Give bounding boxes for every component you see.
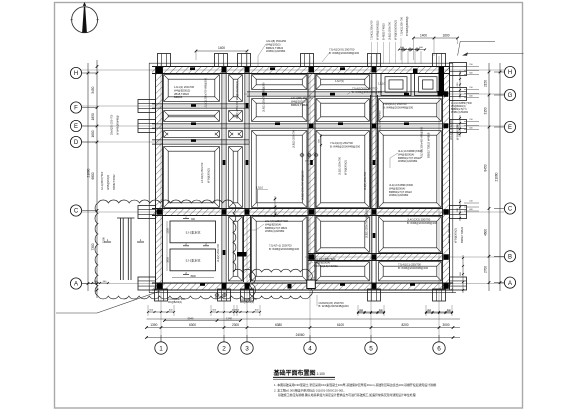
svg-text:B: W4B@200/W4B@200: B: W4B@200/W4B@200: [383, 105, 414, 109]
svg-text:JL8(1) 250x700 W8@200: JL8(1) 250x700 W8@200: [365, 208, 369, 238]
svg-text:2: 2: [222, 345, 226, 352]
columns (filled): [156, 67, 449, 289]
svg-text:600: 600: [149, 310, 153, 312]
rotated pair left wall: [111, 114, 120, 135]
rotated text g3 top: [235, 81, 239, 119]
svg-text:6800: 6800: [91, 172, 95, 179]
svg-text:4JL1(3B) 350x450: 4JL1(3B) 350x450: [291, 96, 313, 100]
svg-text:W4B1(4)JW4B2: W4B1(4)JW4B2: [451, 111, 469, 114]
svg-text:3150: 3150: [484, 107, 488, 114]
svg-text:W4@B200(4): W4@B200(4): [314, 260, 330, 264]
svg-text:7JL4(1CKG) 250/700: 7JL4(1CKG) 250/700: [329, 48, 355, 52]
beam stiffener marks: [190, 67, 415, 285]
top annotation leaders: [370, 20, 398, 64]
svg-text:B: W4B@200/W4B@200: B: W4B@200/W4B@200: [407, 221, 438, 225]
strip footing cell 18: [252, 217, 307, 281]
dimension chain bottom: [145, 319, 460, 339]
svg-text:5J-1集水坑: 5J-1集水坑: [186, 230, 201, 235]
svg-text:600J600: 600J600: [215, 298, 225, 300]
notes: [274, 382, 437, 397]
svg-text:600: 600: [255, 310, 259, 312]
svg-text:600: 600: [460, 271, 462, 275]
svg-text:基础平面布置图: 基础平面布置图: [273, 369, 316, 377]
top right leader lines: [458, 41, 524, 55]
svg-text:4600: 4600: [484, 229, 488, 236]
svg-text:JL6(2) 250x700: JL6(2) 250x700: [388, 21, 392, 40]
svg-text:C: C: [74, 209, 79, 215]
svg-text:W W4B@/W4B@: W W4B@/W4B@: [117, 115, 120, 135]
svg-text:7300: 7300: [91, 243, 95, 250]
svg-text:B3B82(2.5)7:3W22: B3B82(2.5)7:3W22: [398, 156, 421, 160]
svg-text:4JL1(3B9F)*600: 4JL1(3B9F)*600: [101, 171, 104, 190]
svg-text:L4.10(2B9F*600: L4.10(2B9F*600: [168, 299, 185, 301]
foundation beam row E: [152, 124, 443, 128]
svg-text:W4@B200(2): W4@B200(2): [174, 88, 190, 92]
svg-text:300: 300: [103, 281, 107, 283]
svg-text:21060: 21060: [87, 168, 91, 177]
svg-text:W W8@200/2(2): W W8@200/2(2): [376, 21, 380, 40]
foundation beam row D: [152, 140, 249, 144]
svg-text:B3B82 T3B22: B3B82 T3B22: [113, 174, 116, 190]
svg-text:6: 6: [437, 345, 441, 352]
svg-text:1JL7(3): 1JL7(3): [335, 79, 344, 83]
svg-text:W4B1(4)JW4B2: W4B1(4)JW4B2: [266, 49, 286, 53]
leader line lower left: [56, 291, 160, 313]
rotated pair x339: [338, 156, 348, 175]
interior wall column 3 lower: [244, 216, 251, 283]
svg-text:7JL4(1CKG) 250/700: 7JL4(1CKG) 250/700: [352, 87, 378, 91]
column stubs below bottom wall: [155, 289, 446, 301]
svg-text:JL8(2) 250x700: JL8(2) 250x700: [292, 129, 296, 148]
mini dim g4: [319, 134, 323, 147]
svg-text:6300: 6300: [189, 323, 196, 327]
strip footing cell 17: [229, 217, 243, 281]
svg-text:B W4B@/W4B@: B W4B@/W4B@: [405, 16, 409, 36]
text block mid left2: [269, 244, 300, 251]
grid bubbles left: [70, 67, 97, 289]
foundation beam column 5: [372, 74, 376, 284]
exterior wall top (grid H): [152, 67, 450, 74]
svg-text:1: 1: [159, 345, 163, 352]
strip footing cell 5: [164, 111, 220, 122]
svg-text:1240: 1240: [226, 316, 232, 320]
svg-text:JL6(1) 250x700: JL6(1) 250x700: [363, 171, 367, 190]
strip footing cell 22: [379, 262, 442, 281]
rotated dims sump left: [167, 221, 170, 271]
svg-text:B3B82(2.5)7:3W22: B3B82(2.5)7:3W22: [389, 190, 412, 194]
svg-text:G: G: [508, 93, 513, 99]
strip footing cell 16: [229, 147, 243, 208]
svg-text:21060: 21060: [495, 172, 499, 181]
rotated pair right wall upper: [449, 120, 460, 140]
svg-text:1600: 1600: [91, 130, 95, 137]
svg-text:JL4(1CX2) 250/700: JL4(1CX2) 250/700: [407, 218, 431, 222]
svg-text:H: H: [74, 71, 78, 77]
revision cloud: [95, 200, 255, 299]
rotated text g2 top: [204, 77, 208, 109]
rotated text x262: [262, 82, 266, 112]
svg-text:150: 150: [469, 64, 473, 66]
svg-text:200 200: 200 200: [305, 161, 314, 163]
leader low right: [306, 262, 313, 266]
leader top mid: [322, 52, 330, 62]
svg-text:6100: 6100: [337, 323, 344, 327]
svg-text:B3B22 T3B22 W4B18: B3B22 T3B22 W4B18: [427, 132, 431, 158]
text block top corner: [400, 16, 410, 60]
dimension chain left: [87, 60, 99, 298]
svg-text:1JL10: 1JL10: [378, 82, 386, 86]
svg-text:W4@B200(4): W4@B200(4): [168, 302, 182, 304]
svg-text:7JL4(1(3)) 250/700: 7JL4(1(3)) 250/700: [330, 141, 353, 145]
svg-text:B3B22 T3B22: B3B22 T3B22: [460, 226, 464, 243]
svg-text:3: 3: [245, 345, 249, 352]
svg-text:W4@200(2): W4@200(2): [266, 42, 281, 46]
svg-text:E: E: [74, 124, 78, 130]
text block top mid: [329, 48, 360, 55]
pilaster stubs right of wall: [450, 63, 467, 291]
svg-text:W 8@200(2): W 8@200(2): [207, 168, 211, 183]
sump top dim: [191, 218, 196, 221]
strip footing cell 9: [379, 99, 442, 122]
svg-text:基础施工前应先验槽,确认地基承载力满足设计要求后方可进行基础: 基础施工前应先验槽,确认地基承载力满足设计要求后方可进行基础施工,如遇异常情况及…: [278, 392, 416, 397]
grid bubbles right: [494, 66, 516, 288]
grid center lines vertical: [161, 56, 439, 342]
svg-text:W4B1(4)JW4B2: W4B1(4)JW4B2: [389, 193, 409, 197]
svg-text:1: 1: [140, 238, 142, 242]
strip footing cell 1: [164, 75, 220, 102]
svg-text:JL2(2) 250x700: JL2(2) 250x700: [216, 243, 220, 262]
svg-text:CMJW4(3X) 250/700: CMJW4(3X) 250/700: [319, 301, 345, 305]
svg-text:600: 600: [469, 209, 473, 211]
svg-text:1JL2(1) 250x700 W8@200: 1JL2(1) 250x700 W8@200: [204, 77, 208, 109]
rotated text g5 low: [365, 208, 369, 238]
text block right wall G-E: [451, 102, 472, 114]
revision cloud lower: [250, 269, 313, 299]
foundation beam row G: [247, 92, 443, 96]
rotated pair left wall lower: [101, 171, 116, 190]
svg-text:7JL4(1) 250x700: 7JL4(1) 250x700: [370, 20, 374, 40]
pilaster stubs left of wall: [138, 100, 156, 291]
rotated col g2 lower: [216, 243, 220, 262]
svg-text:2B18,T4B22: 2B18,T4B22: [174, 92, 189, 96]
strip footing cell 7: [252, 99, 307, 122]
svg-text:E: E: [508, 125, 512, 131]
pile marks top: [401, 47, 419, 51]
foundation beam column 3 upper: [245, 67, 249, 216]
interior wall row C: [152, 209, 443, 216]
svg-text:H: H: [508, 70, 512, 76]
svg-text:600: 600: [419, 47, 423, 49]
svg-text:6380: 6380: [275, 323, 282, 327]
small label L4.10: [256, 186, 268, 207]
svg-text:1400: 1400: [420, 33, 427, 37]
foundation beam column 2: [222, 67, 226, 284]
open column at grid 4 row A: [307, 280, 316, 289]
svg-text:W4B1(4)JW4B2: W4B1(4)JW4B2: [265, 229, 285, 233]
svg-text:600: 600: [469, 72, 473, 74]
svg-text:B: W4B@200/W4B@200: B: W4B@200/W4B@200: [329, 51, 360, 55]
strip footing cell 11: [229, 131, 243, 138]
text block mid right2: [407, 218, 438, 225]
svg-text:2JL4(7)C2B5F*600: 2JL4(7)C2B5F*600: [265, 219, 289, 223]
svg-text:1400: 1400: [218, 46, 225, 50]
svg-text:W 8@100/200(2): W 8@100/200(2): [394, 20, 398, 40]
svg-text:W 8@200(2): W 8@200(2): [344, 160, 348, 175]
text under stub2: [215, 298, 225, 300]
rotated text g4: [292, 129, 296, 148]
isolated spread footings J-1 J-2: [381, 74, 441, 96]
svg-text:2: 2: [185, 271, 187, 275]
rotated col x302: [301, 170, 305, 200]
svg-text:JL9(1) 250x700 W8@200: JL9(1) 250x700 W8@200: [262, 82, 266, 112]
strip footing cell 14: [379, 131, 442, 208]
leader row G: [347, 91, 352, 95]
svg-text:B3B22,T:3B22: B3B22,T:3B22: [266, 46, 284, 50]
rotated pair mid right: [420, 126, 431, 158]
leader top left: [258, 44, 266, 66]
svg-text:C: C: [508, 207, 513, 213]
svg-text:B: B: [508, 255, 512, 261]
foundation beam row F: [152, 104, 249, 108]
text block low right: [314, 257, 338, 268]
strip footing cell 13: [316, 131, 369, 208]
svg-text:W4@B200(4): W4@B200(4): [265, 222, 281, 226]
text block row G: [352, 87, 383, 94]
svg-text:8200: 8200: [401, 323, 408, 327]
svg-text:1JL10: 1JL10: [256, 186, 264, 190]
drawing title: [273, 369, 336, 379]
svg-text:W 8@200(2): W 8@200(2): [456, 125, 460, 140]
svg-text:A: A: [74, 282, 78, 288]
leader mid left: [252, 224, 264, 230]
text block cell H-F: [174, 85, 195, 99]
svg-text:2. 本工程±0.000相当于绝对标高 011001-530: 2. 本工程±0.000相当于绝对标高 011001-5300C10-001,: [274, 388, 345, 393]
sub dimension stub5: [357, 310, 385, 314]
svg-text:F: F: [74, 106, 78, 112]
pile marks row E: [300, 153, 319, 163]
svg-text:5940: 5940: [188, 316, 194, 320]
bottom mini dimensions: [147, 305, 453, 316]
text block mid left: [265, 219, 289, 233]
svg-text:2Bx9(2B) 250-700: 2Bx9(2B) 250-700: [111, 114, 114, 135]
pile marks bottom: [215, 293, 227, 298]
ramp / annex structure: [91, 218, 144, 284]
svg-text:600: 600: [169, 310, 173, 312]
svg-text:JL8(2) 250x700 W8@200: JL8(2) 250x700 W8@200: [301, 170, 305, 200]
top dimension 1400 left: [195, 46, 249, 64]
svg-text:150: 150: [469, 119, 473, 121]
svg-text:1500: 1500: [102, 237, 106, 243]
svg-text:3450: 3450: [91, 86, 95, 93]
small label g5 top: [378, 82, 386, 86]
svg-text:B3B82(2.5)7:3B22: B3B82(2.5)7:3B22: [265, 226, 288, 230]
svg-text:JCL2(1) 300x600: JCL2(1) 300x600: [449, 120, 453, 140]
svg-text:1JL1(1) 200x700: 1JL1(1) 200x700: [174, 85, 195, 89]
svg-text:L4.10(2) 250x700: L4.10(2) 250x700: [200, 162, 204, 183]
svg-text:600: 600: [319, 138, 321, 142]
svg-text:JL5(1) 250x700: JL5(1) 250x700: [338, 156, 342, 175]
interior wall column 4: [308, 74, 315, 283]
svg-text:JL3(1) 250x700 W8@100/200(2): JL3(1) 250x700 W8@100/200(2): [235, 81, 239, 119]
svg-text:8450: 8450: [484, 164, 488, 171]
text under stub3: [240, 299, 257, 304]
svg-text:JL4(1CX2B9F)X600: JL4(1CX2B9F)X600: [389, 183, 414, 187]
svg-text:5: 5: [369, 345, 373, 352]
strip footing cell 20: [379, 217, 442, 253]
top mini dimensions: [398, 47, 426, 64]
rotated pair right wall: [447, 223, 464, 243]
interior wall row B: [308, 254, 443, 261]
svg-text:7JL4(1(1)) 250/700: 7JL4(1(1)) 250/700: [398, 263, 421, 267]
exterior wall bottom (row A): [152, 283, 453, 290]
strip footing cell 6: [229, 111, 243, 122]
drawing border frame: [55, 3, 523, 409]
leader block big mid: [390, 153, 398, 168]
small text 1L3: [335, 79, 344, 83]
svg-text:W 8@200(2): W 8@200(2): [454, 228, 458, 243]
exterior wall left (grid 1): [156, 67, 163, 290]
svg-text:A: A: [508, 281, 512, 287]
strip footing cell 8: [316, 99, 369, 122]
right mini dimensions: [457, 71, 464, 294]
exterior wall right (grid 6): [443, 67, 450, 290]
rotated pair left cell: [200, 162, 211, 183]
strip footing cell 12: [252, 131, 307, 208]
svg-text:B: W4B@200/W4B@200: B: W4B@200/W4B@200: [398, 266, 429, 270]
text block bottom mid: [317, 295, 349, 308]
svg-text:2150: 2150: [484, 80, 488, 87]
grid center lines horizontal: [82, 70, 505, 284]
perimeter footing edge lines: [149, 63, 456, 293]
svg-text:600: 600: [235, 310, 239, 312]
svg-text:1JL7(3) 350x450: 1JL7(3) 350x450: [378, 110, 382, 130]
svg-text:1: 1: [107, 238, 109, 242]
svg-text:B: W4B@200/W4B@200: B: W4B@200/W4B@200: [352, 90, 383, 94]
svg-text:JCL4(1) 300x600: JCL4(1) 300x600: [447, 223, 451, 243]
wall column 5 hatched segment: [371, 95, 378, 209]
north arrow compass: [71, 2, 99, 33]
svg-text:300: 300: [191, 218, 196, 221]
svg-text:B: W4B@200/W4B@200: B: W4B@200/W4B@200: [330, 144, 361, 148]
strip footing cell 4: [316, 75, 369, 90]
svg-text:1390: 1390: [150, 323, 157, 327]
svg-text:1. 本图基础采用C30混凝土,垫层采用C10素混凝土100: 1. 本图基础采用C30混凝土,垫层采用C10素混凝土100厚,基础保护层厚度4…: [274, 382, 437, 387]
svg-text:W4B@200(4): W4B@200(4): [107, 175, 110, 190]
text block big mid: [398, 149, 423, 163]
vertical leader x257: [257, 190, 259, 209]
svg-text:B3W82(2.5)7:3W22: B3W82(2.5)7:3W22: [314, 264, 338, 268]
svg-text:W4@B200(4): W4@B200(4): [389, 186, 405, 190]
svg-text:7JL4(1CC) 250/700: 7JL4(1CC) 250/700: [383, 102, 407, 106]
svg-text:24060: 24060: [296, 333, 305, 337]
rotated col right of g5 top: [378, 110, 382, 130]
svg-text:D: D: [74, 140, 79, 146]
svg-text:7JL4(7+1) 250/700: 7JL4(7+1) 250/700: [269, 244, 292, 248]
svg-text:B: W4B@200/W4B@200: B: W4B@200/W4B@200: [319, 304, 350, 308]
svg-text:600: 600: [457, 207, 459, 211]
svg-text:600: 600: [469, 127, 473, 129]
svg-text:150: 150: [469, 87, 473, 89]
text block top left: [266, 39, 287, 53]
strip footing cell 10: [164, 131, 220, 138]
sub dimension stub6: [425, 310, 453, 314]
svg-text:5J-1集水坑: 5J-1集水坑: [186, 258, 201, 263]
svg-text:2700: 2700: [484, 266, 488, 273]
svg-text:1850: 1850: [91, 113, 95, 120]
svg-text:4JL1(8) 350x450: 4JL1(8) 350x450: [266, 39, 287, 43]
svg-text:600: 600: [212, 310, 216, 312]
svg-text:2300: 2300: [232, 323, 239, 327]
svg-text:L4.10(2B9F*600: L4.10(2B9F*600: [240, 299, 257, 301]
svg-text:B3B22,T:3B22: B3B22,T:3B22: [291, 103, 309, 107]
svg-text:4JL7(3) 350x450 W8@200: 4JL7(3) 350x450 W8@200: [420, 126, 424, 158]
sump bottom dim: [172, 275, 214, 278]
grid bubbles bottom: [155, 335, 445, 354]
svg-text:1:100: 1:100: [317, 372, 325, 376]
svg-text:600: 600: [457, 82, 459, 86]
svg-text:B 4B25 T4B25: B 4B25 T4B25: [382, 23, 386, 40]
text block G-E right: [383, 102, 414, 109]
svg-text:W4B2(4)JW4B2: W4B2(4)JW4B2: [398, 159, 418, 163]
sub dimension 5940: [163, 316, 242, 322]
rotated dims cloud right: [274, 196, 278, 217]
svg-text:W4@B200(4): W4@B200(4): [398, 152, 414, 156]
svg-text:3000: 3000: [442, 323, 449, 327]
text block E mid: [330, 141, 361, 148]
strip footing cell 21: [316, 262, 369, 281]
sump pit rectangles: [170, 215, 216, 275]
strip footing cell 3: [252, 75, 307, 90]
strip footing cell 15: [164, 147, 220, 208]
text under stub1: [168, 299, 185, 304]
svg-text:W4@B200(4): W4@B200(4): [240, 302, 254, 304]
rotated pair g5 mid: [363, 171, 367, 190]
svg-text:150: 150: [469, 201, 473, 203]
svg-text:B3B18: B3B18: [174, 95, 183, 99]
text block cell B-A: [398, 263, 429, 270]
svg-text:7JL4(1) 250-700: 7JL4(1) 250-700: [400, 16, 404, 36]
svg-text:W4@200(2): W4@200(2): [291, 99, 306, 103]
strip footing cell 2: [229, 75, 243, 102]
svg-text:4: 4: [308, 345, 312, 352]
text block left of g4: [291, 96, 313, 107]
svg-text:B: W4B@200/W4B@200: B: W4B@200/W4B@200: [269, 247, 300, 251]
text block E-C lower: [389, 183, 414, 197]
dimension chain right: [464, 63, 501, 291]
strip footing cell 19: [316, 217, 369, 253]
svg-text:600: 600: [469, 95, 473, 97]
top dimension 1400 1600 right: [412, 33, 459, 60]
pilaster stubs above top wall: [158, 54, 446, 67]
svg-text:4L1(1CX2B9F)X600: 4L1(1CX2B9F)X600: [398, 149, 423, 153]
svg-text:1600: 1600: [442, 33, 449, 37]
svg-text:2JL7(3X)B5F*600: 2JL7(3X)B5F*600: [314, 257, 336, 261]
